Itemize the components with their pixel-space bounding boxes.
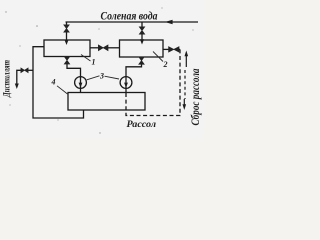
svg-text:Сброс рассола: Сброс рассола	[190, 68, 202, 125]
svg-text:3: 3	[99, 72, 104, 81]
svg-text:Соленая вода: Соленая вода	[101, 11, 158, 23]
svg-text:2: 2	[163, 60, 168, 69]
svg-text:4: 4	[51, 78, 56, 87]
svg-text:1: 1	[92, 58, 96, 67]
svg-text:Рассол: Рассол	[127, 120, 157, 130]
svg-text:Дистиллят: Дистиллят	[2, 60, 12, 98]
